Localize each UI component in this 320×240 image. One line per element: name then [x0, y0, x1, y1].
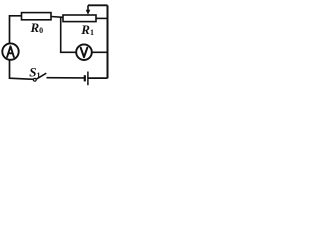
wire switch to battery — [47, 77, 85, 79]
wire right vertical — [107, 5, 109, 78]
wire top — [88, 4, 108, 6]
svg-text:R1: R1 — [80, 22, 94, 37]
wire ammeter bottom — [10, 60, 34, 80]
battery negative plate (short) — [84, 75, 86, 81]
wire between R0 and R1 — [51, 16, 63, 19]
svg-text:R0: R0 — [30, 20, 44, 35]
rheostat slider arrow — [87, 5, 89, 11]
resistor R0 — [22, 13, 52, 20]
switch S1 lever — [36, 73, 46, 79]
ammeter A — [2, 43, 18, 59]
voltmeter V — [76, 44, 92, 60]
wire voltmeter left branch — [61, 17, 77, 52]
battery positive plate (long) — [87, 72, 89, 86]
switch S1 contact dot — [33, 78, 36, 81]
wire battery to right — [88, 77, 108, 79]
wire left vertical and top-left corner — [10, 16, 22, 44]
wire voltmeter right — [91, 51, 107, 53]
svg-text:S1: S1 — [29, 64, 40, 79]
wire R1 right terminal — [96, 17, 108, 19]
rheostat R1 — [63, 15, 96, 22]
